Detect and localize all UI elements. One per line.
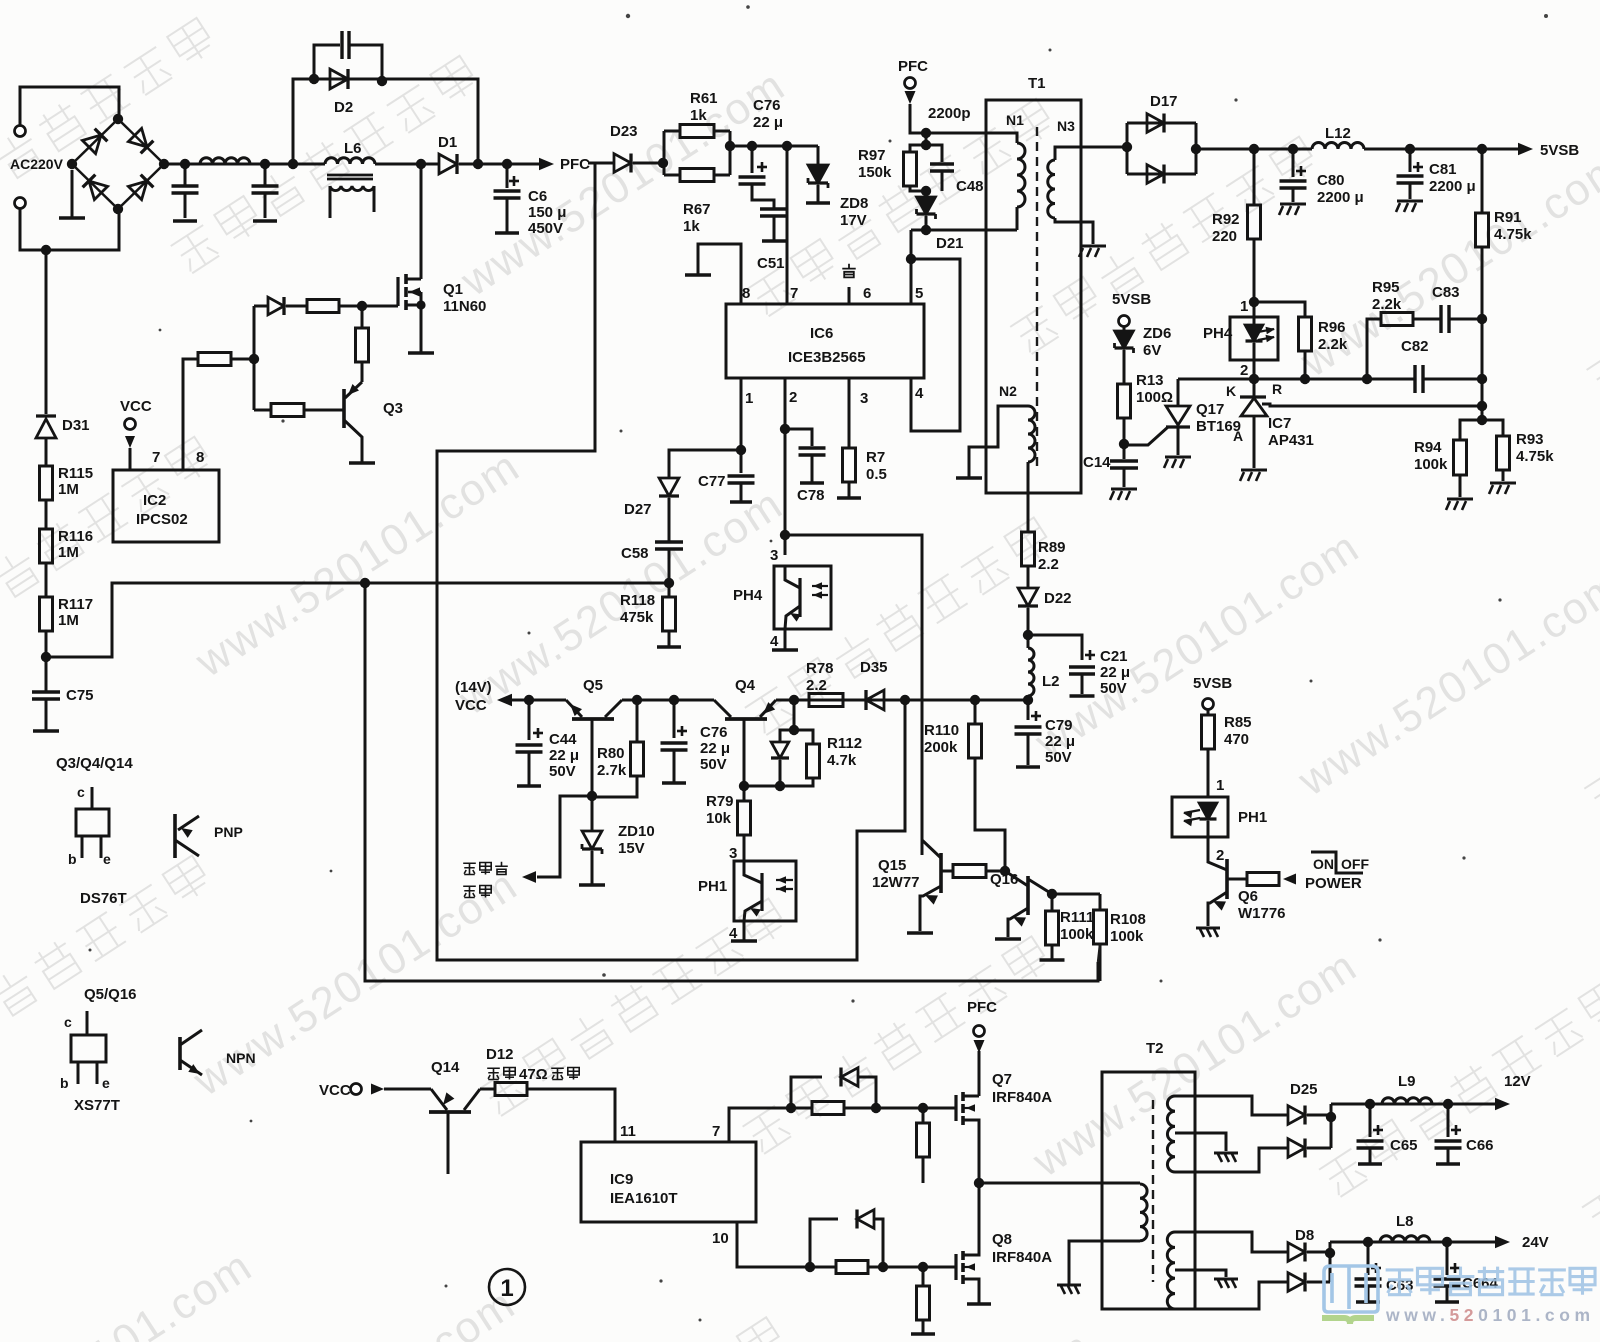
resistor R111 — [1051, 894, 1054, 911]
24V arrow — [1495, 1236, 1510, 1249]
svg-text:Q3/Q4/Q14: Q3/Q4/Q14 — [56, 755, 133, 772]
svg-text:Q16: Q16 — [990, 871, 1018, 888]
svg-text:C80: C80 — [1317, 172, 1345, 189]
svg-text:12V: 12V — [1504, 1073, 1531, 1090]
zener D21 — [925, 191, 928, 197]
svg-text:ZD6: ZD6 — [1143, 325, 1171, 342]
resistor R13 — [1118, 384, 1131, 418]
svg-text:D21: D21 — [936, 235, 964, 252]
resistor R91 — [1481, 149, 1484, 213]
svg-text:10: 10 — [712, 1230, 729, 1247]
wire Q1 gate — [362, 305, 398, 308]
node bridge left — [67, 159, 77, 169]
svg-text:50V: 50V — [1100, 680, 1127, 697]
svg-text:1M: 1M — [58, 544, 79, 561]
svg-text:PH4: PH4 — [733, 587, 763, 604]
wire half bridge mid — [978, 1051, 981, 1096]
wire PFC to D23 — [588, 162, 614, 165]
svg-text:2200p: 2200p — [928, 105, 971, 122]
cap C66 — [1447, 1104, 1450, 1137]
filter choke LF — [200, 158, 250, 164]
wire IC7 R to fb — [1262, 404, 1482, 406]
svg-text:50V: 50V — [549, 763, 576, 780]
svg-text:17V: 17V — [840, 212, 867, 229]
svg-text:4: 4 — [915, 385, 924, 402]
node R112 rail — [789, 695, 799, 705]
svg-text:PH4: PH4 — [1203, 325, 1233, 342]
svg-text:C66: C66 — [1466, 1137, 1494, 1154]
wire vcc rail left — [512, 699, 566, 702]
svg-text:R7: R7 — [866, 449, 885, 466]
svg-text:ZD10: ZD10 — [618, 823, 655, 840]
svg-text:PNP: PNP — [214, 824, 243, 840]
wire collector bus — [1052, 893, 1100, 896]
circled 1 — [489, 1269, 525, 1305]
svg-text:IC7: IC7 — [1268, 415, 1291, 432]
svg-text:2: 2 — [1240, 362, 1248, 379]
12V arrow — [1495, 1098, 1510, 1111]
node PH4 pin2 — [1249, 374, 1259, 384]
svg-text:5VSB: 5VSB — [1540, 142, 1579, 159]
T2 secondary 24V winding — [1167, 1232, 1175, 1309]
node C44 — [524, 695, 534, 705]
svg-text:100k: 100k — [1110, 928, 1144, 945]
IC6 pin1 — [740, 378, 743, 450]
transistor Q16 — [1026, 876, 1030, 915]
cap C77 — [740, 450, 743, 473]
node bridge right — [159, 159, 169, 169]
svg-text:100k: 100k — [1060, 926, 1094, 943]
node D2 left — [309, 74, 319, 84]
node R111 top — [1047, 889, 1057, 899]
svg-text:47Ω: 47Ω — [519, 1066, 548, 1083]
resistor R92 — [1253, 149, 1256, 205]
svg-text:IRF840A: IRF840A — [992, 1249, 1052, 1266]
wire main to L6 — [293, 163, 325, 166]
wire gate-net vertical — [253, 306, 256, 410]
svg-text:R110: R110 — [924, 722, 959, 739]
svg-text:PFC: PFC — [967, 999, 997, 1016]
node C664 — [1442, 1237, 1452, 1247]
svg-text:R108: R108 — [1110, 911, 1146, 928]
node long bus x365 — [360, 578, 370, 588]
svg-text:R91: R91 — [1494, 209, 1522, 226]
svg-text:VCC: VCC — [120, 398, 152, 415]
node pin2 branch — [780, 424, 790, 434]
thyristor Q17 — [1124, 427, 1168, 445]
svg-text:50V: 50V — [700, 756, 727, 773]
svg-text:Q5/Q16: Q5/Q16 — [84, 986, 137, 1003]
svg-text:220: 220 — [1212, 228, 1237, 245]
svg-text:450V: 450V — [528, 220, 563, 237]
cap C65 — [1369, 1104, 1372, 1137]
PFC output arrow — [539, 158, 554, 171]
svg-text:R93: R93 — [1516, 431, 1544, 448]
svg-text:VCC: VCC — [319, 1082, 351, 1099]
diode D25 pair — [1288, 1106, 1305, 1125]
bridge diode BR-a — [82, 135, 101, 154]
svg-text:R115: R115 — [58, 465, 93, 482]
svg-text:C82: C82 — [1401, 338, 1429, 355]
node pin1 — [736, 445, 746, 455]
wire N2 bottom — [1027, 462, 1030, 532]
Q7 gate network — [786, 1103, 796, 1113]
svg-text:1M: 1M — [58, 612, 79, 629]
svg-text:N1: N1 — [1006, 112, 1024, 128]
svg-text:W1776: W1776 — [1238, 905, 1286, 922]
12V rail — [1331, 1103, 1496, 1106]
diode D17a — [1147, 114, 1164, 133]
svg-text:R79: R79 — [706, 793, 734, 810]
IC9 box — [581, 1142, 756, 1222]
resistor R-q3-base — [304, 409, 344, 412]
svg-text:PH1: PH1 — [1238, 809, 1267, 826]
svg-text:C51: C51 — [757, 255, 785, 272]
svg-text:5VSB: 5VSB — [1193, 675, 1232, 692]
AC input terminal lower — [15, 198, 26, 209]
node C58-R118 — [664, 578, 674, 588]
svg-text:3: 3 — [770, 547, 778, 564]
cap C76b — [673, 700, 676, 738]
label kong — [842, 264, 855, 278]
svg-text:2: 2 — [789, 389, 797, 406]
svg-text:10k: 10k — [706, 810, 732, 827]
node R13 bottom — [1119, 439, 1129, 449]
diode-R112 parallel — [780, 700, 794, 742]
node Q5 base — [587, 791, 597, 801]
24V rail — [1330, 1241, 1496, 1244]
svg-text:L2: L2 — [1042, 673, 1060, 690]
cap C44 — [528, 700, 531, 740]
svg-text:4.75k: 4.75k — [1516, 448, 1554, 465]
wire D1 out — [459, 163, 541, 166]
svg-text:22 μ: 22 μ — [753, 114, 783, 131]
svg-text:R78: R78 — [806, 660, 834, 677]
svg-text:IC6: IC6 — [810, 325, 833, 342]
svg-text:6: 6 — [863, 285, 871, 302]
svg-text:22 μ: 22 μ — [1045, 733, 1075, 750]
diode D27 — [659, 478, 679, 496]
svg-text:OFF: OFF — [1341, 856, 1369, 872]
winding N1 — [988, 133, 1017, 143]
transformer T1 outline — [986, 100, 1081, 493]
svg-text:2.2: 2.2 — [806, 677, 827, 694]
zener ZD10 — [591, 796, 594, 831]
svg-text:PH1: PH1 — [698, 878, 727, 895]
resistor R-q3-collector — [361, 306, 364, 328]
transistor Q15 — [939, 853, 943, 893]
wire pin2 to Q15 collector — [785, 535, 922, 855]
node C66 — [1443, 1099, 1453, 1109]
svg-text:C75: C75 — [66, 687, 94, 704]
node C6 top — [502, 159, 512, 169]
svg-text:Q5: Q5 — [583, 677, 603, 694]
logo text jiadian — [1386, 1267, 1595, 1295]
svg-text:ICE3B2565: ICE3B2565 — [788, 349, 866, 366]
svg-text:2.2k: 2.2k — [1318, 336, 1348, 353]
svg-text:Q1: Q1 — [443, 281, 463, 298]
svg-text:12W77: 12W77 — [872, 874, 920, 891]
rectifier D17 loop — [1103, 146, 1127, 149]
node D2 right — [377, 76, 387, 86]
zener ZD6 — [1115, 331, 1134, 348]
inductor L8 — [1380, 1236, 1430, 1242]
node Q1 drain — [416, 159, 426, 169]
resistor R85 — [1202, 715, 1215, 749]
node diode bottom — [775, 781, 785, 791]
node rail after D35 — [900, 695, 910, 705]
resistor R7 — [848, 447, 851, 450]
svg-text:AP431: AP431 — [1268, 432, 1314, 449]
svg-text:ON: ON — [1313, 856, 1334, 872]
node R80 — [632, 695, 642, 705]
svg-text:1: 1 — [1216, 777, 1224, 794]
svg-text:ZD8: ZD8 — [840, 195, 868, 212]
svg-text:R80: R80 — [597, 745, 625, 762]
svg-text:N3: N3 — [1057, 118, 1075, 134]
svg-text:A: A — [1233, 428, 1243, 444]
cap C58 — [668, 498, 671, 542]
resistor R80 — [636, 700, 639, 742]
node L2 out — [1023, 695, 1033, 705]
node R92 top — [1249, 144, 1259, 154]
svg-text:C77: C77 — [698, 473, 726, 490]
svg-text:R118: R118 — [620, 592, 655, 609]
svg-text:Q6: Q6 — [1238, 888, 1258, 905]
svg-text:c: c — [77, 784, 85, 800]
resistor R110 — [974, 700, 977, 724]
node D17 left — [1122, 142, 1132, 152]
svg-text:C14: C14 — [1083, 454, 1111, 471]
svg-text:1: 1 — [1240, 298, 1248, 315]
svg-text:PFC: PFC — [560, 156, 590, 173]
svg-text:D25: D25 — [1290, 1081, 1318, 1098]
Q8 gate network — [805, 1262, 815, 1272]
svg-text:8: 8 — [742, 285, 750, 302]
svg-text:Q14: Q14 — [431, 1059, 460, 1076]
zener ZD8 — [817, 146, 820, 165]
svg-text:D2: D2 — [334, 99, 353, 116]
resistors R93 R94 — [1477, 415, 1487, 425]
diode D23 — [614, 154, 631, 173]
svg-text:L8: L8 — [1396, 1213, 1414, 1230]
svg-text:2.2: 2.2 — [1038, 556, 1059, 573]
node fb2 right — [1477, 401, 1487, 411]
svg-text:L9: L9 — [1398, 1073, 1416, 1090]
svg-text:15V: 15V — [618, 840, 645, 857]
AC input terminal upper — [15, 126, 26, 137]
svg-text:100Ω: 100Ω — [1136, 389, 1173, 406]
node R6x bus — [725, 141, 735, 151]
wire vcc rail right — [776, 699, 905, 702]
node R-ic2 — [249, 354, 259, 364]
cap C79 — [1027, 700, 1030, 720]
wire N1 bottom — [926, 229, 1017, 232]
svg-text:1M: 1M — [58, 481, 79, 498]
cap C6 electrolytic — [506, 164, 509, 188]
svg-text:150 μ: 150 μ — [528, 204, 566, 221]
wire PH4 pin4 stub — [784, 629, 787, 649]
inductor L2 — [1028, 648, 1034, 696]
svg-text:IPCS02: IPCS02 — [136, 511, 188, 528]
resistor R116 — [45, 500, 48, 529]
svg-text:IC9: IC9 — [610, 1171, 633, 1188]
winding N3 — [1048, 160, 1055, 218]
svg-text:C76: C76 — [753, 97, 781, 114]
scan specks — [626, 14, 630, 18]
svg-text:C21: C21 — [1100, 648, 1128, 665]
svg-text:4: 4 — [770, 633, 779, 650]
diode D1 — [439, 154, 457, 174]
node bridge top — [113, 114, 123, 124]
svg-text:D8: D8 — [1295, 1227, 1314, 1244]
svg-text:Q8: Q8 — [992, 1231, 1012, 1248]
svg-text:VCC: VCC — [455, 697, 487, 714]
resistor R61 — [663, 131, 666, 175]
ground at bridge — [71, 170, 74, 218]
cap C14 — [1123, 444, 1126, 459]
IC6 pin8 — [698, 244, 741, 304]
svg-text:c: c — [64, 1014, 72, 1030]
R97 C48 parallel — [925, 133, 928, 145]
node D25 out — [1326, 1112, 1336, 1122]
transistor Q5 — [572, 717, 614, 721]
svg-text:C65: C65 — [1390, 1137, 1418, 1154]
svg-text:5: 5 — [915, 285, 923, 302]
svg-text:C78: C78 — [797, 487, 825, 504]
node D23 out — [633, 162, 663, 165]
node D17 right — [1191, 144, 1201, 154]
legend package PNP — [76, 809, 109, 836]
diode D2 — [330, 69, 348, 89]
node pin2 low — [780, 530, 790, 540]
resistor R115 — [45, 438, 48, 466]
svg-text:R111: R111 — [1060, 909, 1094, 926]
svg-text:e: e — [102, 1075, 110, 1091]
svg-text:7: 7 — [712, 1123, 720, 1140]
wire L6 to D1 — [375, 163, 439, 166]
cap C51 — [760, 207, 788, 210]
node Q16 base net — [1000, 866, 1010, 876]
svg-text:7: 7 — [790, 285, 798, 302]
wire rail to L2 — [905, 699, 1028, 702]
diode D22 — [1027, 566, 1030, 588]
filter cap CX1 — [180, 159, 190, 169]
resistor R-gate-top — [286, 305, 307, 308]
node C76 top — [747, 141, 757, 151]
diode D31 — [45, 250, 48, 414]
svg-text:L12: L12 — [1325, 125, 1351, 142]
cap C63 — [1367, 1242, 1370, 1275]
svg-text:7: 7 — [152, 449, 160, 466]
transistor Q4 — [725, 717, 767, 721]
IC6 pin3 — [848, 378, 851, 448]
svg-text:2200 μ: 2200 μ — [1317, 189, 1364, 206]
svg-text:R61: R61 — [690, 90, 718, 107]
node Q1 gate net — [357, 301, 367, 311]
svg-text:2200 μ: 2200 μ — [1429, 178, 1476, 195]
svg-text:8: 8 — [196, 449, 204, 466]
feedback bus — [1178, 378, 1415, 381]
wire 5VSB rail — [1196, 148, 1312, 151]
svg-text:(14V): (14V) — [455, 679, 492, 696]
VCC 14V arrow — [497, 694, 512, 707]
svg-text:R95: R95 — [1372, 279, 1400, 296]
diode D17b — [1147, 165, 1164, 184]
svg-text:C76: C76 — [700, 724, 728, 741]
svg-text:N2: N2 — [999, 383, 1017, 399]
node R96 bottom — [1300, 374, 1310, 384]
svg-text:1: 1 — [745, 390, 753, 407]
filter cap CX2 — [260, 159, 270, 169]
svg-text:D23: D23 — [610, 123, 638, 140]
IC9 pin7 — [729, 1108, 791, 1142]
svg-text:R116: R116 — [58, 528, 93, 545]
IC6 pin5 — [910, 230, 913, 304]
svg-text:3: 3 — [729, 845, 737, 862]
svg-text:D35: D35 — [860, 659, 888, 676]
svg-text:D17: D17 — [1150, 93, 1178, 110]
svg-text:R85: R85 — [1224, 714, 1252, 731]
svg-text:AC220V: AC220V — [10, 156, 64, 172]
svg-text:e: e — [103, 851, 111, 867]
resistor R118 — [668, 583, 671, 597]
legend PNP symbol — [173, 814, 177, 858]
svg-text:Q7: Q7 — [992, 1071, 1012, 1088]
svg-text:2.7k: 2.7k — [597, 762, 627, 779]
svg-text:IRF840A: IRF840A — [992, 1089, 1052, 1106]
svg-text:C79: C79 — [1045, 717, 1073, 734]
IC6 box — [726, 304, 924, 378]
node D21 out — [921, 225, 931, 235]
resistor R89 — [1022, 532, 1035, 566]
logo book icon — [1324, 1266, 1378, 1312]
transformer T2 outline — [1102, 1072, 1195, 1309]
transistor Q14 — [429, 1110, 471, 1114]
IC6 pin7 — [786, 146, 789, 304]
svg-text:NPN: NPN — [226, 1050, 256, 1066]
svg-text:C58: C58 — [621, 545, 649, 562]
R95 C83 branch — [1367, 319, 1381, 379]
svg-text:IC2: IC2 — [143, 492, 166, 509]
svg-text:IEA1610T: IEA1610T — [610, 1190, 678, 1207]
diode D-gate — [254, 305, 268, 308]
svg-text:R117: R117 — [58, 596, 93, 613]
svg-text:11N60: 11N60 — [443, 298, 486, 315]
svg-text:PFC: PFC — [898, 58, 928, 75]
svg-text:R96: R96 — [1318, 319, 1346, 336]
long bottom route — [365, 583, 1098, 981]
node R91 top — [1477, 144, 1487, 154]
node R110 top — [970, 695, 980, 705]
svg-text:D22: D22 — [1044, 590, 1072, 607]
node Q7 source — [974, 1178, 984, 1188]
svg-text:C6: C6 — [528, 188, 547, 205]
transistor Q6 — [1225, 859, 1229, 899]
cap C76 electrolytic — [751, 146, 754, 173]
svg-text:50V: 50V — [1045, 749, 1072, 766]
resistor D12 — [480, 1088, 495, 1091]
node C81 top — [1405, 144, 1415, 154]
MOSFET Q1 — [420, 164, 423, 279]
resistor R117 — [45, 563, 48, 597]
IC2 box — [113, 470, 219, 542]
svg-text:1k: 1k — [690, 107, 707, 124]
legend NPN symbol — [178, 1037, 182, 1070]
svg-text:Q4: Q4 — [735, 677, 756, 694]
svg-text:Q15: Q15 — [878, 857, 906, 874]
svg-text:b: b — [60, 1075, 69, 1091]
